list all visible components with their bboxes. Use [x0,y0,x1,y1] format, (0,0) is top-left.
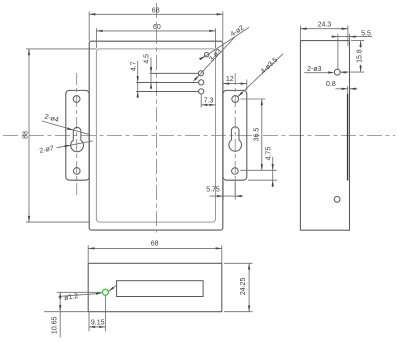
leader 2-o3 [304,72,332,74]
svg-text:4.75: 4.75 [266,147,273,161]
side view bottom hole [334,196,340,202]
dimension 10.65 [59,292,61,337]
arrow 12 left [223,82,229,84]
svg-text:24.3: 24.3 [318,21,332,28]
svg-text:36.5: 36.5 [254,128,261,142]
main view vertical centerline [156,3,158,233]
leader 2-o4 [42,121,89,134]
arrow 4.75 top [272,164,274,170]
arrow 24.3 right [342,28,348,30]
arrow leader o1.2 [96,293,102,295]
dimension 4.7 [137,61,139,98]
arrow leader 4-o2 [199,56,205,60]
arrow 24.25 bottom [248,306,250,312]
svg-text:88: 88 [22,131,29,139]
dimension 12 [223,83,247,85]
arrow 2-o3 left [328,71,334,73]
svg-text:15.8: 15.8 [357,49,364,63]
right bracket centerline [234,73,236,197]
arrow 88 bottom [28,216,30,222]
arrow 0.8 right [350,88,356,90]
arrow 60 right [209,30,215,32]
leader 3-o3 [194,36,236,81]
arrow 60 left [96,30,102,32]
dimension 88 [28,49,30,222]
main view outer rectangle [89,41,223,230]
right bracket keyhole slot [229,127,242,152]
dimension 24.25 [248,263,250,311]
arrow 15.8 top [359,41,361,47]
arrow 24.25 top [248,263,250,269]
svg-text:7.3: 7.3 [204,97,214,104]
left bracket keyhole slot [71,127,84,151]
svg-text:0.8: 0.8 [326,81,336,88]
svg-text:5.75: 5.75 [206,186,220,193]
arrow leader o1.2 right [109,287,115,292]
arrow leader 2-o7 [64,145,70,147]
extension line hole row 2 [136,81,198,83]
arrow 4.7 top [137,76,139,82]
svg-text:4-ø3.5: 4-ø3.5 [260,57,280,76]
arrow 12 right [241,82,247,84]
arrow 2-o3 right [340,71,346,73]
leader 4-o3.5 [238,54,283,97]
arrow 10.65 top [59,292,61,298]
arrow 9.15 right [99,326,105,328]
dimension 9.15 [89,326,105,328]
svg-text:4-ø2: 4-ø2 [229,25,245,39]
extension line hole row 1 [150,72,199,74]
arrow 5.5 left [332,35,338,37]
corner hole for 4-o2 [205,53,209,57]
arrow 5.75 left [217,195,223,197]
left bracket top hole [73,96,80,103]
small hole row 2 [199,80,204,85]
left bracket centerline [76,73,78,197]
arrow 88 top [28,49,30,55]
small hole row 3 [199,89,204,94]
right bracket top hole [232,96,239,103]
arrow 4.5 bottom [150,82,152,88]
arrow 5.5 right [350,35,356,37]
dimension 68 top [89,13,223,15]
bottom view slot [117,281,204,297]
arrow 68b right [216,247,222,249]
arrow leader 4-o3.5 [238,92,243,97]
leader o1.2 right segment [109,285,117,292]
green hole o1.2 [102,289,108,295]
side view top hole [334,69,340,75]
arrow 4.75 bottom [272,180,274,186]
arrow leader 2-o4 [67,127,73,130]
arrow 4.7 bottom [137,91,139,97]
dimension 4.75 [272,157,274,187]
dimension 5.75 [210,195,244,197]
leader 2-o7 [57,141,93,148]
dimension 15.8 [360,41,362,48]
arrow 15.8 bottom [359,66,361,72]
svg-text:5.5: 5.5 [361,31,371,38]
main view inner rectangle [96,49,215,222]
svg-text:60: 60 [153,24,161,31]
arrow leader 3-o3 [194,75,199,80]
svg-text:68: 68 [151,241,159,248]
arrow 7.3 left [201,104,207,106]
arrow 24.3 left [300,28,306,30]
svg-text:2-ø3: 2-ø3 [307,66,322,73]
svg-text:9.15: 9.15 [91,320,105,327]
dimension 60 [96,30,215,32]
arrow 68b left [88,247,94,249]
arrow 10.65 bottom [59,305,61,311]
bottom view rectangle [88,263,222,311]
side view rectangle [300,41,349,231]
arrow 68 left [89,13,95,15]
arrow 4.5 top [150,67,152,73]
arrow 36.5 bottom [261,164,263,170]
svg-text:68: 68 [152,8,160,15]
arrow 68 right [217,13,223,15]
left bracket plate [66,90,89,180]
arrow 0.8 left [342,88,348,90]
arrow 36.5 top [261,99,263,105]
dimension 0.8 [336,88,348,90]
right bracket plate [223,90,247,180]
leader o1.2 [59,294,97,297]
svg-text:2-ø7: 2-ø7 [39,145,55,155]
dimension 4.5 [150,58,152,89]
side view wall edge [347,94,349,181]
svg-text:10.65: 10.65 [52,316,59,334]
svg-text:12: 12 [226,76,234,83]
svg-text:4.5: 4.5 [143,54,150,64]
right bracket bottom hole [232,168,239,175]
svg-text:ø1.2: ø1.2 [64,293,79,302]
dimension 68 bottom view [88,247,222,249]
extension line hole row 3 [136,90,198,92]
dimension 24.3 [300,28,348,30]
svg-text:24.25: 24.25 [240,278,247,296]
dimension 5.5 [332,36,373,38]
small hole row 1 [198,71,203,76]
dimension 36.5 [261,99,263,170]
arrow 9.15 left [89,326,95,328]
dimension 7.3 [201,104,215,106]
arrow 5.75 right [235,195,241,197]
svg-text:4.7: 4.7 [130,61,137,71]
left bracket bottom hole [74,168,81,175]
horizontal centerline [3,135,395,137]
arrow 7.3 right [209,104,215,106]
leader 4-o2 [201,27,249,59]
